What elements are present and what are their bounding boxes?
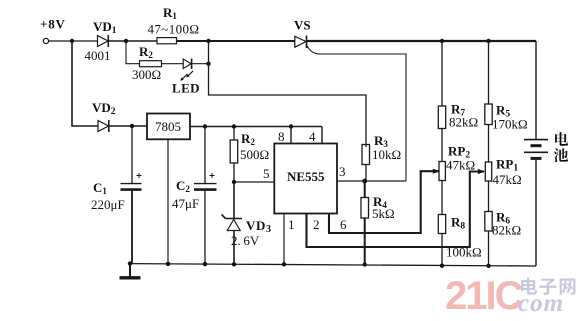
node junction LED cathode column xyxy=(206,39,210,43)
svg-text:+8V: +8V xyxy=(40,17,66,32)
resistor R2 300 xyxy=(132,44,162,82)
svg-text:4: 4 xyxy=(309,129,316,144)
svg-text:2: 2 xyxy=(313,217,320,232)
node R4 ground dot xyxy=(363,262,367,266)
resistor R1 xyxy=(148,5,200,44)
node R8 ground dot xyxy=(440,264,444,268)
wire VS cathode to right xyxy=(307,40,537,42)
svg-text:3: 3 xyxy=(339,164,346,179)
ground xyxy=(120,264,141,278)
svg-text:47μF: 47μF xyxy=(172,196,199,211)
wire pin 1 xyxy=(283,213,285,264)
diode VD1 xyxy=(85,19,117,63)
node R7 top junction xyxy=(440,39,444,43)
wire VD1 to R1 xyxy=(108,40,157,42)
capacitor C1 xyxy=(91,126,142,264)
resistor R8 xyxy=(438,215,481,266)
wire pin 8 stub xyxy=(290,127,292,144)
node R2-500 top junction xyxy=(232,124,236,128)
svg-text:4001: 4001 xyxy=(85,48,111,63)
wire pin3 to gate riser xyxy=(365,180,406,182)
node pin3 junction xyxy=(362,179,367,184)
svg-text:1: 1 xyxy=(288,217,295,232)
node VD3 rail dot xyxy=(232,262,236,266)
node C1 junction xyxy=(130,124,134,128)
svg-text:7805: 7805 xyxy=(155,119,181,134)
resistor R6 xyxy=(485,210,521,266)
svg-text:220μF: 220μF xyxy=(91,197,125,212)
wire R2 branch down xyxy=(126,41,140,64)
wire 7805 output rail xyxy=(190,126,322,128)
node R6 ground dot xyxy=(486,264,490,268)
wire VS gate to pin3 node xyxy=(321,54,406,181)
node junction R2 branch xyxy=(124,39,128,43)
zener VD3 xyxy=(222,182,272,266)
svg-text:2. 6V: 2. 6V xyxy=(231,233,260,248)
svg-text:300Ω: 300Ω xyxy=(132,67,161,82)
potentiometer RP1 xyxy=(485,125,521,212)
resistor R2-500 xyxy=(230,127,269,183)
svg-text:47~100Ω: 47~100Ω xyxy=(148,22,200,37)
wire bottom ground rail xyxy=(130,264,537,266)
battery BT1 xyxy=(524,41,568,266)
LED xyxy=(172,59,200,96)
wire R1 to VS xyxy=(177,40,295,42)
wire pin 4 drop xyxy=(321,127,323,144)
svg-text:21IC: 21IC xyxy=(445,274,523,318)
wire LED to junction xyxy=(192,63,209,65)
node pin5 junction xyxy=(232,180,236,184)
wire pin 6 to RP2 wiper xyxy=(329,171,439,233)
svg-text:8: 8 xyxy=(278,129,285,144)
node LED cathode junction xyxy=(206,62,210,66)
left bus wire down to VD2 xyxy=(72,41,98,126)
resistor R7 xyxy=(438,41,478,130)
wire top rail from terminal to VD1 xyxy=(49,40,97,42)
node 7805 gnd rail dot xyxy=(166,262,170,266)
wiper arrow RP1 xyxy=(478,169,485,174)
svg-text:500Ω: 500Ω xyxy=(240,147,269,162)
resistor R4 xyxy=(361,181,395,265)
svg-text:47kΩ: 47kΩ xyxy=(446,158,475,173)
svg-text:5: 5 xyxy=(263,166,270,181)
capacitor C2 xyxy=(172,127,217,266)
svg-text:100kΩ: 100kΩ xyxy=(446,245,482,260)
node C1 rail dot xyxy=(128,261,132,265)
svg-text:10kΩ: 10kΩ xyxy=(372,147,401,162)
diode VD2 xyxy=(92,100,116,132)
node +8V terminal xyxy=(43,38,48,43)
wire pin 5 xyxy=(234,181,274,183)
svg-text:170kΩ: 170kΩ xyxy=(492,117,528,132)
wire pin 2 to RP1 wiper xyxy=(307,172,485,248)
potentiometer RP2 xyxy=(439,129,475,215)
svg-text:VS: VS xyxy=(294,18,311,33)
svg-text:6: 6 xyxy=(340,217,347,232)
wire VD2 to 7805 xyxy=(109,125,147,127)
resistor R5 xyxy=(485,41,528,132)
watermark 21IC xyxy=(445,274,575,318)
wire junction column down and to R3 xyxy=(209,41,367,144)
thyristor VS xyxy=(294,18,321,55)
svg-text:47kΩ: 47kΩ xyxy=(493,172,522,187)
svg-text:82kΩ: 82kΩ xyxy=(449,115,478,130)
wiper arrow RP2 xyxy=(433,169,440,174)
wire pin 3 xyxy=(337,180,365,182)
svg-text:NE555: NE555 xyxy=(287,169,325,184)
node C2 rail dot xyxy=(203,262,207,266)
node R5 top junction xyxy=(486,39,490,43)
op-amp U2 NE555 xyxy=(274,129,347,232)
node pin8 junction xyxy=(289,124,293,128)
wire 7805 ground pin xyxy=(167,139,169,264)
node A junction left bus xyxy=(70,39,74,43)
resistor R3 xyxy=(362,133,401,181)
regulator U1 7805 xyxy=(147,114,190,140)
node C2 top junction xyxy=(203,124,207,128)
svg-text:82kΩ: 82kΩ xyxy=(492,223,521,238)
wire R2 to LED xyxy=(162,63,184,65)
svg-text:com: com xyxy=(518,290,564,317)
svg-text:LED: LED xyxy=(172,81,200,96)
svg-text:5kΩ: 5kΩ xyxy=(372,206,395,221)
node pin1 ground dot xyxy=(282,262,286,266)
